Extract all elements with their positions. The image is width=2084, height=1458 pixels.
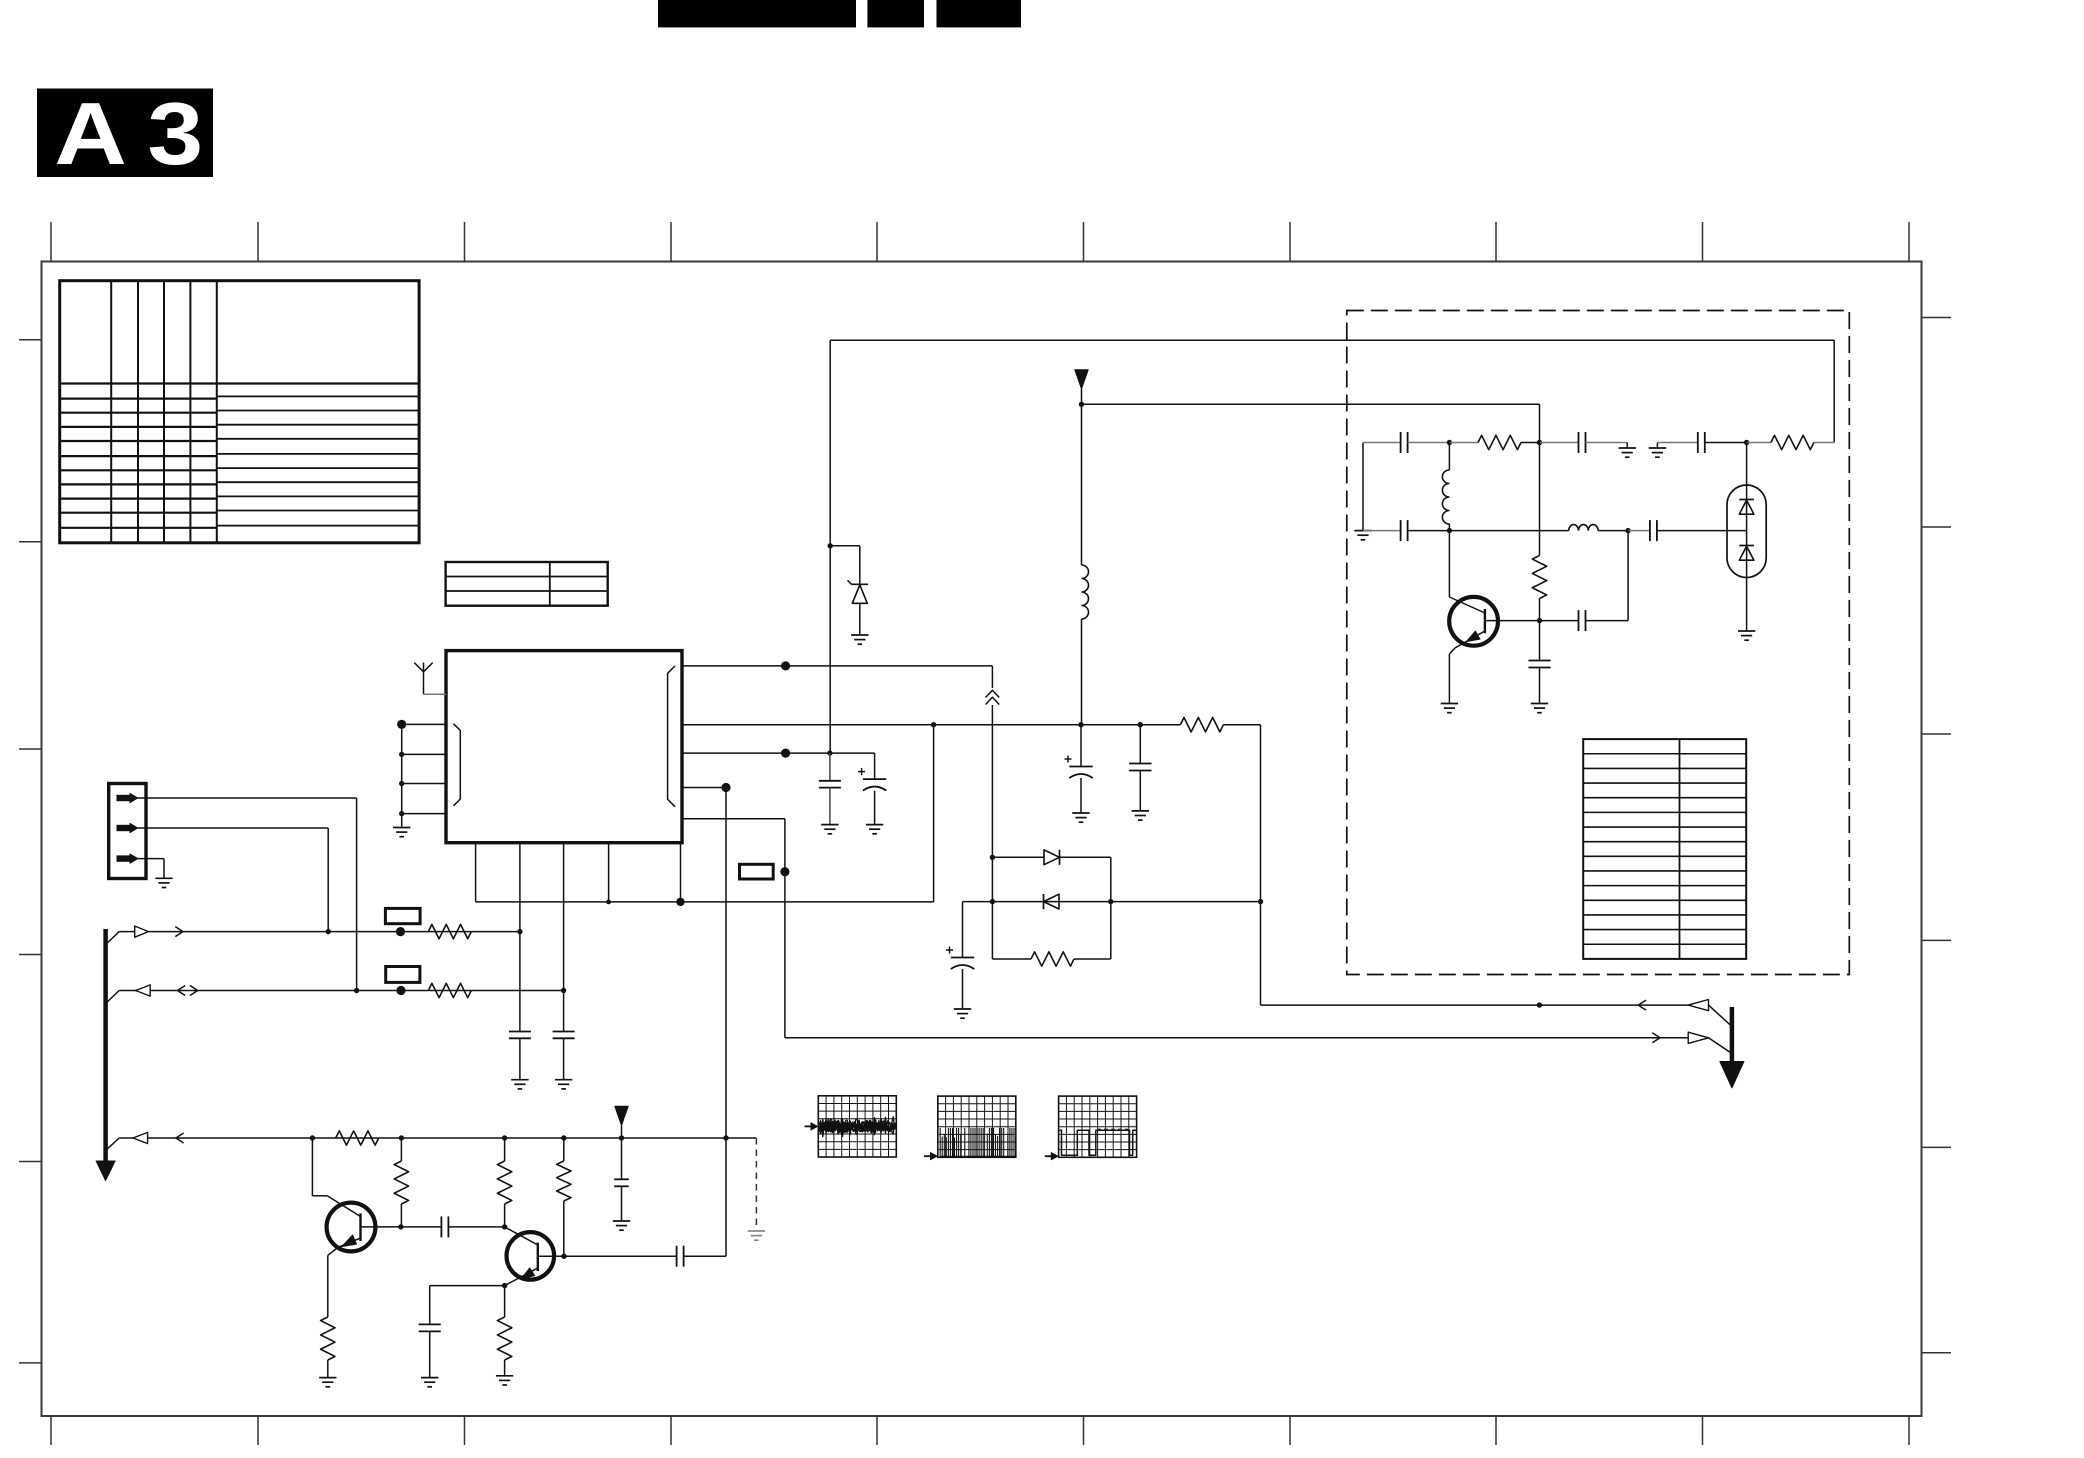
IC bottom pin e xyxy=(680,843,682,902)
resistor R9 xyxy=(321,1317,335,1360)
ground C6 xyxy=(1132,810,1149,812)
arrow netA xyxy=(1688,1000,1708,1011)
wire supply feed xyxy=(1082,403,1540,405)
wire pin2 xyxy=(138,827,328,829)
wire dashed stub xyxy=(755,1138,757,1228)
wire C11 out xyxy=(684,1255,726,1257)
chevron netA xyxy=(1638,1000,1646,1010)
node bus3 r4 xyxy=(399,1135,404,1140)
wire Q3 collector xyxy=(1448,531,1450,597)
ground R9 xyxy=(319,1377,336,1379)
resistor R7 xyxy=(504,1138,506,1161)
capacitor C14 xyxy=(1657,442,1697,444)
node bus3 c8 xyxy=(619,1135,624,1140)
node bm2 xyxy=(1108,899,1113,904)
capacitor C1 xyxy=(509,1031,531,1033)
arrow bus1 xyxy=(135,926,149,937)
resistor R11 xyxy=(1449,442,1478,444)
wire net A xyxy=(1260,902,1262,1006)
capacitor C8 xyxy=(621,1138,623,1179)
IC inner bracket right xyxy=(668,666,675,807)
svg-text:A3: A3 xyxy=(54,85,223,183)
IC right pin 1 xyxy=(682,665,992,667)
IC bottom pin a xyxy=(475,843,477,902)
node o2 xyxy=(1537,440,1542,445)
node d xyxy=(606,900,611,905)
wire net B xyxy=(785,1037,1688,1039)
node bm3 xyxy=(1258,899,1263,904)
node bus1 end xyxy=(517,929,522,934)
ground dashed xyxy=(748,1230,765,1232)
IC bottom pin b xyxy=(519,843,521,1032)
node testpoint J3 xyxy=(396,927,405,936)
arrow bus2 xyxy=(136,985,151,996)
dashed enclosure xyxy=(1347,311,1850,975)
capacitor C7 electrolytic xyxy=(962,902,964,958)
bus arrow left xyxy=(96,1161,115,1181)
node testpoint e xyxy=(676,898,684,906)
supply arrow xyxy=(1075,370,1088,389)
antenna xyxy=(423,672,425,695)
wire R9 gnd xyxy=(327,1360,329,1378)
wire top rail riser xyxy=(829,340,831,753)
scope waveform 1 xyxy=(818,1096,896,1157)
node testpoint R1 xyxy=(781,661,790,670)
Q3 base wire xyxy=(1485,620,1579,622)
node testpoint R4 xyxy=(721,783,730,792)
node L3 xyxy=(399,781,404,786)
IC left pin 3 xyxy=(402,783,446,785)
ground C1 xyxy=(511,1079,528,1081)
ground C8 xyxy=(613,1220,630,1222)
wire bridge bottom xyxy=(992,958,1031,960)
jumper link J4 xyxy=(386,967,420,983)
capacitor C4 electrolytic xyxy=(874,753,876,779)
arrow netB xyxy=(1688,1032,1708,1043)
resistor R5 xyxy=(1180,718,1223,732)
diode D3 xyxy=(1044,894,1060,909)
net bus2 xyxy=(119,990,563,992)
wire to diode bridge xyxy=(991,666,993,688)
chevron up marks xyxy=(986,690,1000,697)
bus diag 2 xyxy=(106,991,120,1004)
wire supply xyxy=(1081,389,1083,404)
ground C3 xyxy=(821,824,838,826)
IC left pin 1 xyxy=(402,723,446,725)
varicap D4 D5 xyxy=(1727,485,1766,578)
wire Q2e left xyxy=(430,1285,505,1287)
IC inner bracket left xyxy=(454,724,461,806)
connector pin 2 xyxy=(117,825,131,831)
node b3 xyxy=(1138,722,1143,727)
node bus1 a xyxy=(326,929,331,934)
wire pin3 xyxy=(138,858,164,860)
redacted title block 2 xyxy=(867,0,924,27)
ground C4 xyxy=(866,824,883,826)
capacitor C6 xyxy=(1139,725,1141,764)
wire Q1 collector xyxy=(311,1138,313,1196)
Q2 base wire xyxy=(538,1255,677,1257)
transistor Q1 xyxy=(327,1203,376,1252)
resistor R13 xyxy=(1539,443,1541,556)
node b1 xyxy=(931,722,936,727)
IC left pin 2 xyxy=(402,753,446,755)
wire pin1 xyxy=(138,797,357,799)
node L4 xyxy=(399,811,404,816)
node testpoint J4 xyxy=(396,986,405,995)
node Q2 collector xyxy=(502,1224,507,1229)
node o1 xyxy=(1447,440,1452,445)
ground connector xyxy=(155,877,172,879)
ground IC left xyxy=(393,827,410,829)
ground C5 xyxy=(1072,812,1089,814)
node bus3 out xyxy=(723,1135,728,1140)
wire osc row2 xyxy=(1449,530,1568,532)
connector pin 3 xyxy=(117,855,131,861)
scope waveform 2 xyxy=(938,1096,1016,1157)
transistor Q3 xyxy=(1449,597,1498,646)
connector J1 xyxy=(109,784,146,879)
wire C18 up xyxy=(1627,531,1629,621)
wire R4 down xyxy=(725,788,727,1257)
node bus2 a xyxy=(354,988,359,993)
ground C14 xyxy=(1649,447,1666,449)
transistor Q2 xyxy=(507,1232,555,1280)
waveform noise xyxy=(820,1119,896,1135)
Q3 emitter xyxy=(1455,631,1485,648)
IC U1 xyxy=(446,651,682,843)
capacitor C16 xyxy=(1628,530,1650,532)
IC right pin 3 xyxy=(682,752,875,754)
revision table xyxy=(60,281,419,543)
resistor R10 xyxy=(504,1286,506,1317)
supply arrow 2 xyxy=(615,1106,628,1125)
IC right pin 4 xyxy=(682,787,726,789)
resistor R4 xyxy=(400,1138,402,1161)
redacted title bar xyxy=(658,0,856,27)
bus bar left xyxy=(103,929,108,1162)
scope arrow 2 xyxy=(924,1155,932,1157)
wire R5 out xyxy=(1223,724,1260,726)
capacitor C12 xyxy=(1363,442,1401,444)
chevron bus3 xyxy=(176,1133,184,1143)
wire bridge right xyxy=(1110,857,1112,959)
scope arrow 3 xyxy=(1045,1155,1053,1157)
Q1 base wire xyxy=(361,1226,442,1228)
IC bottom pin c xyxy=(563,843,565,1032)
node Q1 base xyxy=(398,1224,403,1229)
wire varicap xyxy=(1746,443,1748,632)
bus arrow right xyxy=(1730,1007,1735,1062)
node Q2 emitter xyxy=(502,1283,507,1288)
capacitor C17 xyxy=(1529,660,1551,662)
arrow bus3 xyxy=(133,1132,148,1143)
Q2 emitter xyxy=(505,1268,538,1286)
node bt xyxy=(990,855,995,860)
wire net AGC xyxy=(476,901,934,903)
node testpoint R5 xyxy=(780,867,789,876)
node Q3 base xyxy=(1537,618,1542,623)
bus diag 1 xyxy=(106,932,120,945)
ground osc xyxy=(1354,530,1371,532)
bus diag 3 xyxy=(106,1138,120,1151)
wire supply 2 xyxy=(621,1126,623,1139)
node bus3 r7 xyxy=(502,1135,507,1140)
alignment table xyxy=(1583,739,1746,959)
node netA xyxy=(1537,1002,1542,1007)
IC bottom pin d xyxy=(608,843,610,902)
diode D1 zener xyxy=(830,545,860,547)
capacitor C18 xyxy=(1578,610,1580,631)
node bus3 r8 xyxy=(561,1135,566,1140)
resistor R2 xyxy=(428,983,471,997)
node bus3 q1 xyxy=(310,1135,315,1140)
ground C2 xyxy=(555,1079,572,1081)
wire bridge top xyxy=(992,856,1044,858)
capacitor C13 xyxy=(1540,442,1579,444)
node testpoint R3 xyxy=(781,749,790,758)
net bus3 xyxy=(119,1137,756,1139)
node o3 xyxy=(1744,440,1749,445)
resistor R12 xyxy=(1747,442,1771,444)
net bus1 xyxy=(119,931,520,933)
scope arrow 1 xyxy=(805,1125,813,1127)
waveform pulses xyxy=(1060,1130,1137,1155)
capacitor C5 electrolytic xyxy=(1080,725,1082,767)
ground varicap xyxy=(1738,630,1755,632)
value table xyxy=(446,562,608,606)
inductor L3 xyxy=(1569,525,1598,531)
IC right pin 5 xyxy=(682,818,785,820)
redacted title block 3 xyxy=(937,0,1022,27)
chevron netB xyxy=(1652,1033,1660,1043)
ground C13 xyxy=(1626,443,1628,449)
waveform burst xyxy=(939,1128,941,1156)
jumper link J3 xyxy=(385,908,420,923)
border frame xyxy=(42,262,1922,1417)
scope waveform 3 xyxy=(1059,1096,1137,1157)
node zener tap xyxy=(828,543,833,548)
node L2 xyxy=(399,752,404,757)
wire netA tail xyxy=(1709,1005,1732,1026)
inductor L2 xyxy=(1442,470,1449,524)
diode D2 xyxy=(1044,850,1060,865)
wire netB tail xyxy=(1709,1038,1732,1054)
resistor R6 xyxy=(1031,952,1074,966)
wire IC left pins xyxy=(401,724,403,826)
ground C7 xyxy=(954,1008,971,1010)
capacitor C15 xyxy=(1363,530,1401,532)
ground Q3 xyxy=(1441,703,1458,705)
node R3b xyxy=(827,750,832,755)
wire Q2 collector xyxy=(505,1227,538,1245)
node supply xyxy=(1079,402,1084,407)
IC right pin 2 bus xyxy=(682,724,1180,726)
wire C9 out xyxy=(448,1226,504,1228)
node bus2 end xyxy=(561,988,566,993)
resistor R3 xyxy=(336,1131,379,1145)
IC left pin 4 xyxy=(402,813,446,815)
ground C10 xyxy=(421,1377,438,1379)
wire osc gnd riser xyxy=(1362,443,1364,531)
node o5 xyxy=(1625,528,1630,533)
node bm1 xyxy=(990,899,995,904)
ground D1 xyxy=(851,634,868,636)
wire bridge mid xyxy=(963,901,1261,903)
resistor R1 xyxy=(428,924,471,938)
chevron bus1 xyxy=(175,927,183,937)
node b2 xyxy=(1078,722,1083,727)
Q1 emitter xyxy=(338,1238,361,1248)
connector pin 1 xyxy=(117,795,131,801)
capacitor C3 xyxy=(829,753,831,781)
jumper link J2 xyxy=(740,864,774,879)
ground R10 xyxy=(496,1375,513,1377)
capacitor C2 xyxy=(553,1031,575,1033)
capacitor C11 xyxy=(676,1246,678,1267)
wire L3 out xyxy=(1598,530,1628,532)
inductor L1 xyxy=(1081,404,1083,565)
chevron bus2 xyxy=(178,986,186,996)
node testpoint L1 xyxy=(397,720,406,729)
resistor R8 xyxy=(563,1138,565,1161)
wire top rail xyxy=(830,339,1834,341)
ground C17 xyxy=(1531,703,1548,705)
sheet label A3 xyxy=(37,89,213,178)
node o4 xyxy=(1447,528,1452,533)
capacitor C9 xyxy=(440,1216,442,1237)
node Q2 base xyxy=(561,1254,566,1259)
capacitor C10 xyxy=(419,1323,441,1325)
